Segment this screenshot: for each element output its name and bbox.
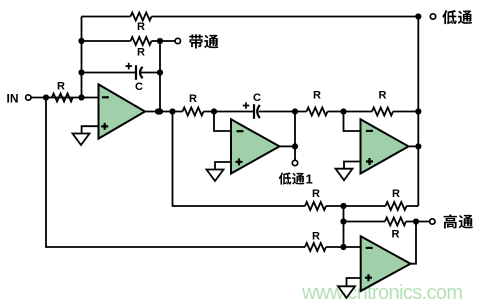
wire row 3 into U4 inverting input: [326, 246, 361, 248]
wire IN row: [31, 97, 98, 99]
node junction 13: [415, 108, 421, 114]
node junction 16: [415, 13, 421, 19]
node junction 3: [78, 69, 84, 75]
resistor R band-pass feedback: [131, 37, 152, 59]
node junction 14: [292, 143, 298, 149]
node junction 11: [292, 108, 298, 114]
resistor R low-pass to summing node: [386, 188, 407, 210]
wire U4 non-inverting input to ground: [347, 278, 361, 286]
resistor R U4 feedback: [385, 218, 406, 241]
wire U1 output row to U2 via R and C2: [145, 111, 418, 113]
node junction 1: [43, 94, 49, 100]
wire summing row 1 right segment (R to low-pass bus): [326, 205, 418, 207]
label 带通 (band-pass): [189, 34, 218, 48]
op-amp U2: [231, 119, 280, 173]
wire band-pass feedback row: [82, 40, 175, 42]
svg-text:R: R: [312, 231, 320, 243]
wire op-amp U1 inverting-input column: [81, 17, 83, 98]
terminal 低通1: [292, 160, 297, 165]
op-amp U1: [99, 84, 146, 138]
wire U3 output to low-pass bus: [409, 145, 419, 147]
resistor R top feedback: [131, 13, 152, 34]
terminal 低通: [430, 14, 435, 19]
svg-text:R: R: [392, 229, 400, 241]
node junction 7: [157, 108, 163, 114]
resistor R U3 feedback: [372, 90, 393, 116]
wire U2 output column to C2 and 低通1 terminal: [294, 112, 296, 161]
svg-text:R: R: [379, 90, 387, 102]
wire U3 inverting input step: [344, 112, 361, 132]
wire high-pass feedback row 2: [344, 221, 430, 223]
terminal 高通: [430, 219, 435, 224]
wire U2 non-inverting input to ground: [215, 162, 231, 170]
node junction 5: [157, 38, 163, 44]
op-amp U3: [361, 119, 409, 173]
ground (U2 +): [207, 170, 224, 182]
svg-text:IN: IN: [7, 91, 19, 105]
wire C1 feedback row: [82, 72, 161, 74]
svg-text:C: C: [135, 81, 143, 93]
node junction 2: [78, 38, 84, 44]
ground (U3 +): [336, 169, 353, 181]
node junction 20: [413, 218, 419, 224]
svg-text:R: R: [57, 81, 65, 93]
svg-text:R: R: [392, 188, 400, 200]
wire summing node column (rows 1-3): [343, 206, 345, 247]
terminal IN: [26, 95, 31, 100]
svg-text:R: R: [137, 47, 145, 59]
svg-text:www.cntronics.com: www.cntronics.com: [301, 282, 463, 304]
node junction 10: [211, 108, 217, 114]
svg-text:1: 1: [306, 172, 313, 187]
svg-text:R: R: [312, 188, 320, 200]
node junction 17: [340, 203, 346, 209]
svg-text:R: R: [137, 21, 145, 33]
node junction 12: [340, 108, 346, 114]
node junction 6: [157, 69, 163, 75]
node junction 15: [415, 143, 421, 149]
wire U4 output up to high-pass row: [411, 222, 417, 264]
ground (U1 +): [73, 134, 90, 146]
resistor R input from IN: [52, 81, 73, 102]
svg-text:R: R: [313, 90, 321, 102]
wire U2 output: [280, 145, 296, 147]
wire low-pass bus (right vertical): [417, 17, 419, 207]
wire top feedback row (low-pass to U1 input): [82, 16, 419, 18]
label 高通 (high-pass): [444, 214, 473, 228]
label 低通 (low-pass): [442, 10, 472, 24]
capacitor C1 (U1 feedback): [126, 63, 144, 93]
capacitor C2 (U2 feedback): [243, 92, 261, 119]
wire U1 non-inverting input to ground: [82, 126, 99, 133]
wire U3 non-inverting input to ground: [344, 162, 361, 169]
node junction 19: [340, 244, 346, 250]
resistor R U1 output to U2: [183, 93, 204, 116]
svg-text:R: R: [189, 93, 197, 105]
node junction 18: [340, 218, 346, 224]
terminal 带通: [175, 38, 180, 43]
resistor R IN to U4: [305, 231, 326, 252]
label 低通1 (low-pass 1): [279, 172, 313, 187]
svg-text:C: C: [253, 92, 261, 104]
node junction 9: [169, 108, 175, 114]
node junction 4: [78, 94, 84, 100]
wire U1 output down to summing row 1: [173, 112, 306, 207]
op-amp U4: [361, 236, 411, 291]
resistor R U2 to U3: [307, 90, 328, 116]
wire U2 inverting input step: [214, 112, 231, 132]
wire IN feedback down-left to high-pass summing row: [46, 98, 305, 248]
node junction 8: [155, 108, 161, 114]
ground (U4 +): [338, 286, 355, 298]
wire band-pass node column: [159, 41, 161, 112]
resistor R band-pass to summing node: [305, 188, 326, 210]
